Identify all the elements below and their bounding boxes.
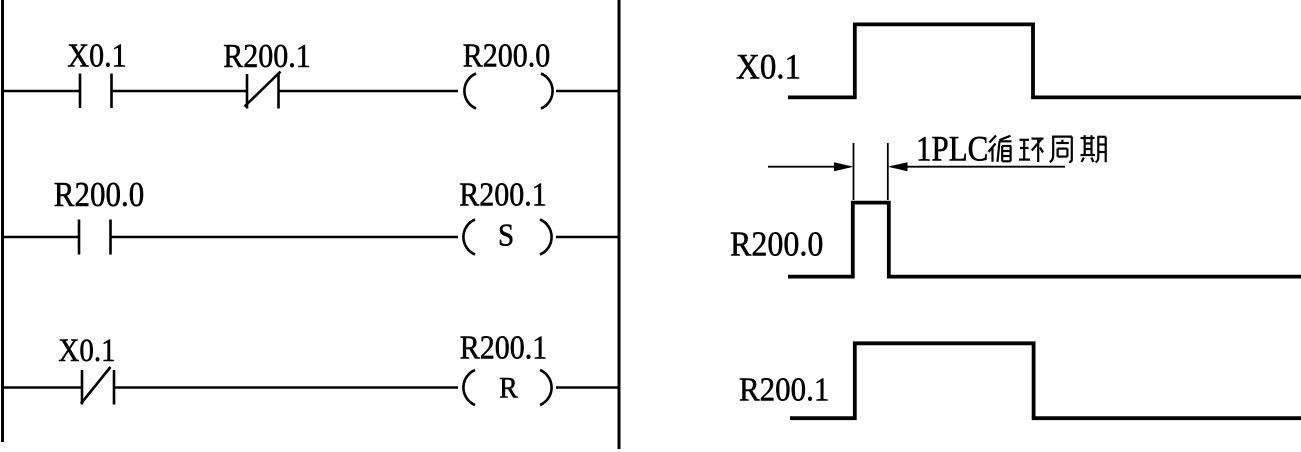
svg-text:R200.0: R200.0 <box>463 37 550 74</box>
hanzi HUAN (ring) <box>1019 139 1044 162</box>
svg-text:R200.1: R200.1 <box>459 176 546 213</box>
svg-text:X0.1: X0.1 <box>67 37 126 74</box>
svg-text:1PLC: 1PLC <box>916 129 988 169</box>
svg-text:X0.1: X0.1 <box>58 333 115 369</box>
svg-text:R200.0: R200.0 <box>730 225 823 264</box>
contact X0.1 (NC) rung 3 <box>81 367 114 405</box>
dimension extension line left <box>853 143 855 200</box>
svg-text:R200.1: R200.1 <box>460 329 547 366</box>
arrowhead pointing right <box>834 162 854 171</box>
coil R200.1 reset (R) rung 3 <box>463 370 551 405</box>
rung 1 wire: rail to contact X0.1 <box>1 90 79 92</box>
hanzi ZHOU (cycle) <box>1050 137 1072 162</box>
hanzi QI (period) <box>1081 135 1106 162</box>
left power rail <box>1 0 4 442</box>
wire <box>112 90 247 92</box>
wire <box>111 236 459 238</box>
waveform R200.1 <box>790 343 1301 418</box>
wire <box>279 90 459 92</box>
waveform X0.1 <box>788 24 1301 97</box>
contact R200.0 (NO) rung 2 <box>79 220 111 255</box>
wire: coil to right rail <box>556 386 620 388</box>
rung 2 wire: rail to contact R200.0 <box>1 236 78 238</box>
coil R200.0 rung 1 <box>464 74 552 109</box>
svg-text:R: R <box>499 372 519 405</box>
wire <box>114 386 458 388</box>
arrowhead pointing left <box>888 162 908 171</box>
coil R200.1 set (S) rung 2 <box>463 220 551 255</box>
contact R200.1 (NC) rung 1 <box>245 72 281 109</box>
wire: coil to right rail <box>556 90 620 92</box>
dimension extension line right <box>887 143 889 200</box>
rung 3 wire: rail to contact X0.1 <box>1 386 81 388</box>
svg-text:S: S <box>498 217 514 253</box>
contact X0.1 (NO) rung 1 <box>80 74 112 109</box>
right power rail <box>618 0 621 449</box>
svg-text:R200.1: R200.1 <box>223 37 310 74</box>
svg-text:R200.0: R200.0 <box>54 176 144 214</box>
svg-text:X0.1: X0.1 <box>736 46 801 87</box>
svg-text:R200.1: R200.1 <box>739 371 829 409</box>
dimension arrow line left <box>768 166 850 168</box>
wire: coil to right rail <box>556 236 620 238</box>
dimension arrow line right <box>891 166 1065 168</box>
waveform R200.0 (one-cycle pulse) <box>788 203 1301 277</box>
hanzi XUN (circulate) <box>989 136 1012 162</box>
